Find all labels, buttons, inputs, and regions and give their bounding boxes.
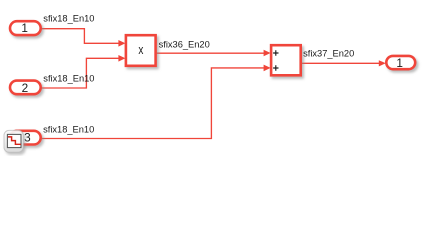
arrowhead out1 [379, 60, 386, 66]
inport 3 [10, 131, 41, 145]
svg-text:1: 1 [21, 21, 28, 35]
inport 1 [10, 21, 41, 35]
badge staircase [8, 137, 21, 144]
wire in1 to product [41, 29, 119, 44]
arrowhead in2 product [118, 55, 125, 62]
outport 1 [386, 56, 415, 70]
plus sign input 2 [273, 65, 278, 70]
svg-text:x: x [138, 43, 144, 57]
wire in3 to add [41, 68, 264, 139]
wire product to add [156, 52, 264, 54]
sample-time badge on inport 3 [4, 130, 23, 152]
svg-text:2: 2 [22, 81, 29, 95]
arrowhead in1 product [118, 40, 125, 47]
svg-text:1: 1 [396, 56, 403, 70]
svg-text:3: 3 [24, 131, 31, 145]
wire add to out1 [302, 62, 380, 64]
wire in2 to product [41, 58, 119, 88]
arrowhead product add [264, 50, 271, 57]
plus sign input 1 [273, 50, 278, 55]
arrowhead in3 add [264, 65, 271, 72]
product block [126, 35, 156, 66]
svg-text:sfix18_En10: sfix18_En10 [43, 14, 94, 24]
badge inner square [7, 134, 21, 147]
svg-text:sfix18_En10: sfix18_En10 [43, 74, 94, 84]
svg-text:sfix37_En20: sfix37_En20 [303, 49, 354, 59]
svg-text:sfix36_En20: sfix36_En20 [159, 39, 210, 49]
svg-text:sfix18_En10: sfix18_En10 [43, 125, 94, 135]
inport 2 [10, 81, 41, 95]
add block [271, 45, 301, 75]
